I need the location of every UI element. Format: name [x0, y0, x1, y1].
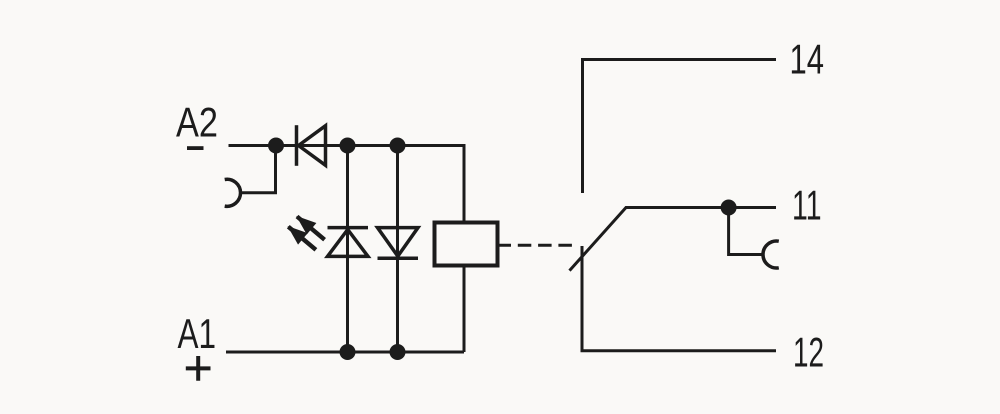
- wire coil bottom: [463, 266, 466, 353]
- socket contact right: [763, 241, 779, 268]
- LED triangle: [328, 230, 369, 257]
- wire switch common to 12: [582, 246, 776, 351]
- junction node 11: [721, 200, 737, 216]
- wire A1 bottom rail: [226, 351, 464, 354]
- svg-text:A2: A2: [176, 99, 218, 146]
- junction node LED bottom: [340, 344, 356, 360]
- diode D1 triangle: [299, 126, 326, 166]
- svg-text:12: 12: [793, 329, 824, 376]
- junction node A2-socket: [268, 138, 284, 154]
- socket contact left: [225, 179, 241, 206]
- diode D2 cathode bar: [378, 256, 419, 260]
- LED cathode bar: [328, 226, 369, 230]
- svg-text:A1: A1: [178, 310, 217, 357]
- wire LED branch vertical: [346, 146, 349, 353]
- wire 14 branch: [583, 60, 777, 194]
- wire A2 top rail: [229, 146, 465, 223]
- LED light arrow 2: [283, 220, 321, 255]
- svg-text:11: 11: [792, 182, 822, 229]
- dashed actuator link: [498, 244, 573, 247]
- LED light arrow 1: [291, 210, 329, 245]
- wire socket stub A2: [241, 146, 276, 193]
- diode D2 triangle: [378, 228, 419, 257]
- diode D1 cathode bar: [295, 125, 299, 166]
- svg-text:14: 14: [790, 36, 825, 83]
- junction node D2 top: [390, 138, 406, 154]
- polarity plus A1: [186, 356, 211, 381]
- polarity minus A2: [187, 146, 204, 150]
- junction node D2 bottom: [390, 344, 406, 360]
- switch arm: [570, 208, 777, 271]
- wire 11 socket stub: [729, 208, 763, 255]
- wire diode branch vertical: [396, 146, 399, 353]
- junction node LED top: [340, 138, 356, 154]
- relay coil K1: [435, 223, 498, 266]
